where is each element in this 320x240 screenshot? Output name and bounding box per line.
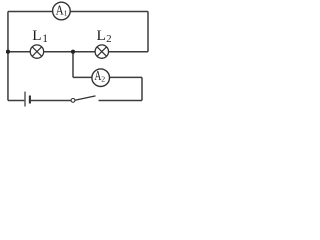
wire battery to switch — [31, 99, 71, 101]
svg-text:L: L — [97, 27, 106, 44]
battery cell — [25, 92, 30, 107]
wire branch vertical from node — [72, 52, 74, 78]
svg-text:1: 1 — [42, 33, 48, 45]
switch — [71, 96, 95, 102]
svg-text:2: 2 — [106, 33, 112, 45]
svg-text:2: 2 — [101, 75, 105, 84]
label L1 — [32, 27, 48, 45]
wire left vertical — [7, 11, 9, 100]
wire bottom left to battery — [8, 99, 24, 101]
node junction center — [71, 50, 75, 54]
wire branch horizontal to A2 — [73, 76, 142, 78]
svg-text:L: L — [32, 27, 41, 44]
wire right vertical lower — [141, 77, 143, 100]
node junction left — [6, 50, 10, 54]
wire top horizontal — [8, 10, 148, 12]
svg-text:1: 1 — [64, 9, 68, 18]
svg-text:A: A — [56, 2, 64, 17]
ammeter A2 — [92, 68, 110, 86]
lamp L1 — [30, 45, 43, 58]
wire right vertical upper — [147, 11, 149, 51]
wire middle horizontal — [8, 51, 148, 53]
lamp L2 — [95, 45, 108, 58]
label L2 — [97, 27, 112, 45]
ammeter A1 — [53, 2, 71, 20]
wire switch to right corner — [99, 99, 143, 101]
